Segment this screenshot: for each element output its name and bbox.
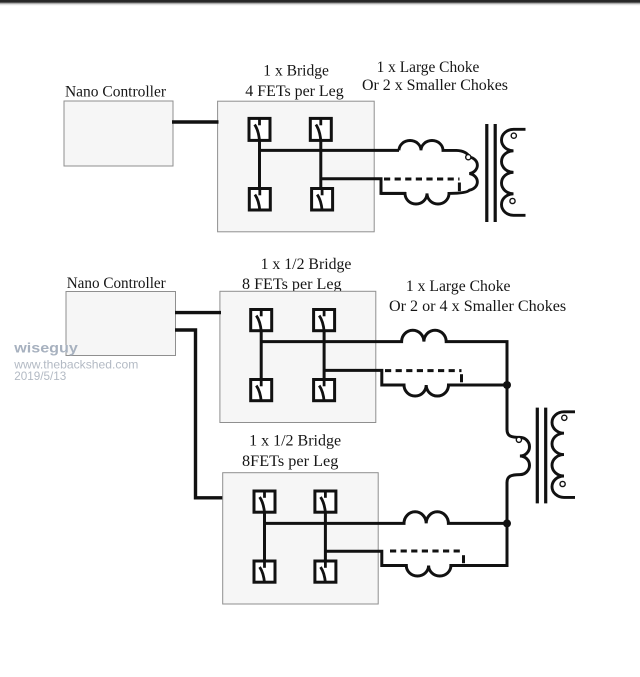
- junction node (top wire to output bus): [503, 381, 511, 389]
- wire: nano2 to bridge2: [175, 311, 221, 314]
- transformer T2 core: [537, 408, 545, 504]
- phase dot T2 secondary top: [562, 415, 567, 420]
- FET Q5 (bridge2 top-left): [251, 309, 272, 332]
- FET Q11 (bridge3 bottom-left): [254, 560, 275, 583]
- svg-text:1 x Large Choke: 1 x Large Choke: [406, 278, 511, 295]
- transformer T1 core: [487, 124, 495, 222]
- nano controller box 1: [64, 101, 173, 166]
- wire: bridge3 output top + choke bumps: [265, 512, 508, 524]
- bridge box 3: [223, 473, 379, 604]
- svg-text:wiseguy: wiseguy: [13, 340, 78, 356]
- svg-text:1 x 1/2 Bridge: 1 x 1/2 Bridge: [261, 256, 352, 273]
- wire: bridge1 right leg vertical: [319, 140, 322, 188]
- wire: bridge2 right leg vertical: [323, 331, 326, 380]
- FET Q10 (bridge3 top-right): [315, 490, 336, 513]
- dashed vertical stub choke 2: [460, 374, 463, 382]
- FET Q9 (bridge3 top-left): [254, 490, 275, 513]
- svg-text:8FETs per Leg: 8FETs per Leg: [242, 453, 338, 470]
- FET Q4 (bridge1 bottom-right): [312, 188, 333, 212]
- phase dot T2 secondary bottom: [560, 481, 565, 486]
- wire: bridge3 output bottom + step + choke bumps: [325, 551, 507, 576]
- nano controller box 2: [66, 292, 176, 356]
- wire: bridge3 left leg vertical: [263, 512, 266, 561]
- wire: nano1 to bridge1: [172, 120, 219, 123]
- svg-text:1 x Bridge: 1 x Bridge: [263, 63, 329, 80]
- transformer T2 secondary winding: [552, 412, 575, 498]
- svg-text:1 x Large Choke: 1 x Large Choke: [377, 59, 480, 76]
- wire: bridge2 left leg vertical: [260, 331, 263, 380]
- FET Q2 (bridge1 top-right): [310, 118, 331, 142]
- dashed split line choke 1: [384, 178, 460, 181]
- svg-text:2019/5/13: 2019/5/13: [14, 369, 66, 383]
- svg-text:Nano Controller: Nano Controller: [67, 275, 167, 292]
- svg-text:4 FETs per Leg: 4 FETs per Leg: [245, 83, 343, 100]
- dashed vertical stub choke 3: [462, 555, 465, 563]
- svg-text:Or 2 or 4 x Smaller Chokes: Or 2 or 4 x Smaller Chokes: [389, 298, 566, 315]
- svg-text:8 FETs per Leg: 8 FETs per Leg: [242, 276, 342, 293]
- dashed split line choke 3: [390, 550, 464, 553]
- junction node (bridge3 top wire to output bus): [503, 519, 511, 527]
- choke L1 (large choke cloud): [381, 141, 477, 204]
- FET Q12 (bridge3 bottom-right): [315, 560, 336, 583]
- phase dot T1 secondary bottom: [510, 198, 515, 203]
- bridge box 1: [218, 101, 375, 232]
- dashed vertical stub choke 1: [458, 183, 461, 192]
- wire: bridge2 output top + choke bumps + corner down: [261, 330, 507, 385]
- wire: bridge2 output bottom + step + choke bumps: [324, 370, 507, 396]
- dashed split line choke 2: [385, 369, 462, 372]
- FET Q6 (bridge2 top-right): [314, 309, 335, 332]
- wire: nano2 to bridge3 (L-shaped): [175, 330, 224, 498]
- bridge box 2: [220, 291, 376, 422]
- phase dot T1 secondary top: [511, 133, 516, 138]
- FET Q7 (bridge2 bottom-left): [251, 379, 272, 402]
- wire: bridge3 right leg vertical: [324, 512, 327, 561]
- top gradient bar: [0, 0, 640, 8]
- wire: bridge1 left leg vertical: [258, 140, 261, 188]
- wire: bridge1 output bus top: [260, 149, 400, 152]
- transformer T1 secondary winding: [502, 129, 526, 215]
- FET Q8 (bridge2 bottom-right): [314, 379, 335, 402]
- phase dot primary T1: [466, 155, 471, 160]
- FET Q1 (bridge1 top-left): [249, 118, 270, 142]
- output bus vertical + transformer T2 primary winding: [450, 383, 530, 566]
- phase dot T2 primary: [516, 437, 521, 442]
- wire: bridge1 output bus bottom with step: [321, 179, 406, 194]
- svg-text:1 x 1/2 Bridge: 1 x 1/2 Bridge: [249, 432, 341, 449]
- svg-text:Nano Controller: Nano Controller: [65, 84, 167, 101]
- svg-text:Or 2 x Smaller Chokes: Or 2 x Smaller Chokes: [362, 77, 508, 94]
- FET Q3 (bridge1 bottom-left): [249, 188, 270, 212]
